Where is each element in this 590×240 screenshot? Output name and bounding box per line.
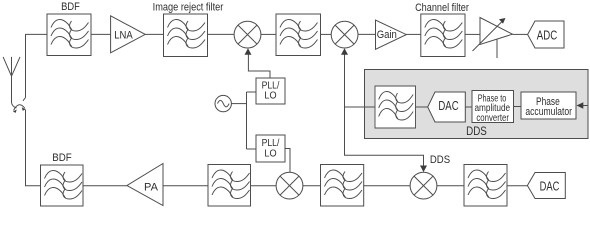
mixer TX 2: [410, 172, 437, 199]
DAC (TX): [527, 173, 565, 199]
svg-text:DAC: DAC: [540, 179, 560, 193]
wire image reject filter to mixer 1: [208, 33, 235, 35]
PLL/LO 2: [256, 135, 285, 162]
filter TX 2: [321, 165, 364, 207]
wire junction to PLL/LO 2: [247, 148, 257, 150]
amplifier PA: [127, 164, 163, 206]
svg-text:ADC: ADC: [537, 29, 557, 43]
wire DAC to converter: [465, 106, 472, 108]
filter TX 3: [464, 165, 507, 207]
wire LNA to image reject filter: [145, 33, 163, 35]
wire mixer 1 to IF filter: [261, 33, 276, 35]
wire BDF to PA: [83, 185, 127, 187]
wire IF filter to mixer 2: [321, 33, 332, 35]
phase to amplitude converter: [472, 91, 514, 124]
filter channel: [421, 14, 465, 57]
svg-text:Channel filter: Channel filter: [415, 2, 469, 14]
wire TX mixer 2 to TX filter 3: [437, 185, 464, 187]
svg-text:DAC: DAC: [438, 99, 458, 113]
wire channel filter to variable amp: [465, 33, 480, 35]
arrow input to phase accumulator: [577, 102, 589, 108]
DDS block (gray): [365, 70, 589, 139]
wire junction vertical: [246, 92, 248, 149]
wire antenna riser to RX row: [26, 34, 48, 97]
phase accumulator: [521, 92, 576, 119]
svg-text:LO: LO: [264, 90, 276, 102]
wire TX filter 2 to TX mixer 2: [364, 185, 410, 187]
wire antenna riser to TX row: [26, 110, 41, 186]
wire TX filter 1 to TX mixer 1: [251, 185, 277, 187]
mixer RX 2: [331, 21, 358, 48]
filter BDF (TX): [41, 165, 84, 206]
filter BDF (RX): [47, 14, 91, 56]
wire PLL/LO 1 to mixer 1: [248, 53, 270, 78]
mixer TX 1: [276, 172, 303, 199]
svg-text:DDS: DDS: [466, 126, 487, 138]
svg-text:accumulator: accumulator: [525, 106, 572, 118]
antenna: [3, 57, 20, 108]
mixer RX 1: [234, 21, 261, 48]
svg-text:Image reject filter: Image reject filter: [153, 2, 224, 14]
DAC (in DDS): [428, 92, 466, 122]
wire mixer 2 to gain amp: [358, 33, 376, 35]
svg-text:converter: converter: [476, 113, 509, 124]
amplifier Gain: [376, 20, 407, 49]
wire PLL/LO 2 to TX mixer 1: [285, 149, 290, 173]
svg-text:LNA: LNA: [114, 29, 133, 41]
svg-text:PA: PA: [144, 182, 159, 194]
variable gain amplifier: [473, 18, 513, 59]
svg-text:BDF: BDF: [61, 1, 80, 13]
wire TX filter 3 to DAC: [507, 185, 527, 187]
filter DDS output: [375, 86, 415, 128]
wire PA to TX filter 1: [163, 185, 208, 187]
wire DDS filter to DAC: [416, 106, 428, 108]
PLL/LO 1: [256, 78, 285, 104]
wire converter to phase accumulator: [514, 106, 522, 108]
wire oscillator to PLL junction: [231, 103, 246, 105]
wire gain amp to channel filter: [406, 33, 421, 35]
T/R switch: [13, 98, 26, 113]
filter IF (RX): [276, 14, 321, 56]
ADC: [528, 21, 564, 48]
filter TX 1: [208, 165, 251, 207]
svg-text:Gain: Gain: [377, 29, 397, 41]
wire DDS output tee: [345, 53, 376, 107]
amplifier LNA: [111, 16, 146, 53]
filter image reject: [164, 14, 208, 57]
wire DDS to TX mixer 2: [345, 107, 424, 167]
wire variable amp to ADC: [513, 33, 528, 35]
svg-text:DDS: DDS: [430, 154, 450, 166]
oscillator: [215, 95, 231, 111]
wire BDF to LNA: [91, 33, 111, 35]
wire junction to PLL/LO 1: [247, 91, 257, 93]
svg-text:BDF: BDF: [52, 152, 72, 164]
svg-text:LO: LO: [264, 147, 276, 159]
wire TX mixer 1 to TX filter 2: [303, 185, 321, 187]
